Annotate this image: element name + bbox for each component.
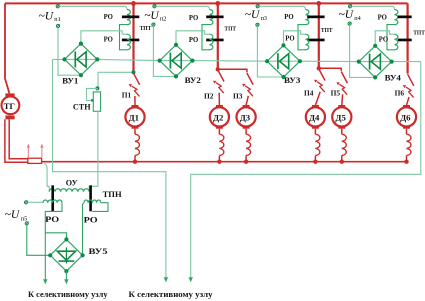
wire: branch down to selective arrow A (44, 233, 46, 280)
wire: DC rail through rectifiers (53, 59, 421, 61)
wire: coil bottoms bracket section 2 (202, 25, 210, 50)
wire: coil bottoms bracket section 1 (120, 25, 128, 50)
inductor: Д1 smoothing coil (134, 129, 136, 135)
node: supply terminal 1 ~Uп3 (256, 5, 259, 8)
svg-text:ВУ2: ВУ2 (185, 76, 201, 85)
node: CTH bracket end (91, 99, 94, 102)
node: supply terminal 2 ~Uп1 (56, 24, 59, 27)
relay coil РО upper section 2 (210, 10, 213, 25)
wire: terminal2 to bridge bottom section 4 (350, 25, 376, 77)
node: bus junction section 3 (316, 1, 321, 6)
wire: TPN right coil to VU5 right corner (83, 203, 85, 256)
svg-text:СТН: СТН (73, 103, 91, 112)
transformer ТПТ core bar upper section 3 (307, 16, 324, 19)
node: tap junction on motor branch 1 (132, 70, 136, 74)
inductor: Д2 smoothing coil (218, 129, 220, 135)
node: supply terminal 2 ~Uп2 (152, 23, 155, 26)
motor Д5 (338, 105, 345, 108)
rectifier ВУ5 (50, 239, 82, 271)
svg-text:ТПТ: ТПТ (224, 25, 236, 32)
node: CTH top junction (95, 86, 99, 90)
svg-text:РО: РО (379, 36, 388, 43)
svg-text:ВУ5: ВУ5 (89, 247, 108, 256)
svg-text:РО: РО (285, 36, 294, 43)
node: supply terminal 1 ~Uп1 (56, 5, 59, 8)
node: supply terminal 2 ~Uп4 (348, 22, 351, 25)
svg-text:ОУ: ОУ (66, 179, 78, 188)
wire: terminal1 to PO coil section 2 (156, 6, 209, 9)
wire: left feeder drop to TG (5, 3, 9, 93)
wire: terminal2 to bridge bottom section 1 (58, 28, 81, 76)
wire: TPN left coil to VU5 top and selective arrow (45, 203, 66, 240)
wire: top supply bus (red) (5, 2, 408, 4)
contactor П1 (134, 73, 140, 85)
wire: terminal2 to bridge bottom section 2 (153, 26, 176, 76)
svg-text:РО: РО (45, 215, 59, 224)
relay coil РО upper section 3 (306, 10, 309, 25)
svg-text:ТГ: ТГ (4, 101, 15, 111)
transformer ТПТ core bar lower section 2 (206, 39, 223, 42)
svg-text:РО: РО (84, 215, 98, 224)
contactor П4 (319, 69, 325, 81)
wire: bottom return bus (red) (42, 161, 408, 163)
svg-text:Д3: Д3 (240, 113, 251, 123)
svg-text:ВУ3: ВУ3 (284, 76, 300, 85)
inductor OU winding (TPN primary) (49, 189, 89, 192)
wire: coil bottoms bracket section 3 (298, 25, 306, 50)
wire: bridge top to PO lower section 2 (176, 31, 210, 45)
node: bus junction section 1 (131, 1, 136, 6)
wire: coil bottoms bracket section 4 (387, 25, 395, 50)
resistor CTH (93, 92, 100, 111)
svg-text:РО: РО (378, 15, 387, 22)
svg-text:~U: ~U (39, 10, 54, 22)
transformer ТПТ core bar lower section 3 (307, 39, 324, 42)
inductor: Д5 smoothing coil (341, 129, 343, 135)
svg-text:К селективному узлу: К селективному узлу (129, 290, 214, 299)
svg-text:п2: п2 (160, 15, 166, 22)
wire: VU5 bottom to selective arrow B (65, 271, 67, 279)
arrow: selective arrow A (43, 279, 47, 284)
wire: branch to П5 (319, 68, 341, 71)
arrow: to selective node 1 (164, 277, 168, 282)
transformer ТПТ core bar upper section 1 (122, 16, 139, 19)
svg-text:РО: РО (104, 36, 113, 43)
svg-text:п3: п3 (261, 15, 267, 22)
svg-text:Д6: Д6 (400, 113, 411, 123)
svg-text:ТПН: ТПН (103, 190, 123, 199)
svg-text:П1: П1 (122, 91, 132, 100)
node: branch split section 2 (216, 67, 220, 71)
wire: CTH to OU winding right end (96, 88, 98, 92)
wire: TG lead inner (9, 119, 28, 158)
transformer ТПТ core bar lower section 1 (122, 39, 139, 42)
contactor П5 (341, 72, 347, 84)
relay coil РО lower section 2 (210, 34, 213, 50)
wire: terminal1 to PO coil section 1 (60, 6, 128, 9)
motor Д3 (243, 105, 250, 108)
svg-text:Д5: Д5 (335, 113, 346, 123)
svg-text:П6: П6 (395, 88, 405, 97)
svg-text:П2: П2 (204, 92, 214, 101)
relay coil РО lower section 3 (306, 34, 309, 50)
svg-text:~U: ~U (144, 10, 159, 22)
rectifier ВУ1 (65, 44, 98, 76)
wire: terminal2 to bridge bottom section 3 (257, 26, 283, 77)
transformer ТПН core bar right (89, 185, 92, 211)
rectifier ВУ2 (160, 45, 193, 77)
svg-text:РО: РО (189, 15, 198, 22)
inductor: Д6 smoothing coil (406, 129, 408, 135)
inductor: Д4 smoothing coil (314, 129, 316, 135)
svg-text:~U: ~U (339, 9, 354, 21)
svg-text:ТПТ: ТПТ (140, 25, 152, 32)
arrow: selective arrow B (64, 279, 68, 284)
contactor П2 (218, 70, 224, 82)
relay coil РО lower section 4 (395, 34, 398, 50)
generator TG (5, 93, 14, 97)
motor Д2 (216, 105, 223, 108)
svg-text:Д1: Д1 (129, 113, 139, 123)
node: supply terminal 2 ~Uп3 (256, 23, 259, 26)
svg-text:Д2: Д2 (213, 113, 224, 123)
wire: TPN right coil bracket (92, 203, 108, 212)
relay coil РО upper section 1 (127, 10, 130, 25)
svg-text:ТПТ: ТПТ (413, 29, 425, 36)
svg-text:ТПТ: ТПТ (321, 27, 333, 34)
node: supply terminal 1 ~Uп4 (348, 5, 351, 8)
relay coil РО lower section 1 (127, 34, 130, 50)
shunt resistor (28, 158, 42, 163)
rectifier ВУ3 (267, 45, 300, 77)
inductor: Д3 smoothing coil (245, 129, 247, 135)
wire: bridge top to PO lower section 4 (375, 31, 394, 46)
arrow: to selective node 2 (189, 277, 193, 282)
wire: red feeder section 1 (132, 3, 134, 72)
wire: TG lead outer (5, 119, 28, 162)
node: supply terminal 1 ~Uп5 (24, 201, 27, 204)
node: bus junction section 2 (215, 1, 220, 6)
wire: red feeder section 2 (217, 3, 219, 69)
wire: shunt tap to OU winding left end (44, 163, 49, 191)
transformer ТПТ core bar upper section 4 (398, 16, 412, 19)
wire: selective node line 1 (from VU1 minus) (53, 59, 166, 277)
transformer ТПТ core bar upper section 2 (206, 16, 223, 19)
svg-text:РО: РО (104, 14, 113, 21)
svg-text:Д4: Д4 (309, 113, 320, 123)
wire: terminal2 to VU5 left corner (27, 225, 50, 255)
wire: CTH bypass bracket (87, 88, 98, 100)
svg-text:РО: РО (189, 37, 198, 44)
svg-text:ВУ4: ВУ4 (385, 74, 401, 83)
rectifier ВУ4 (359, 46, 392, 78)
svg-text:п4: п4 (354, 15, 360, 22)
wire: terminal1 to TPN left coil (28, 201, 43, 203)
svg-text:П4: П4 (304, 89, 314, 98)
wire: tap from motor branch to CTH (98, 72, 134, 88)
wire: red feeder section 4 (407, 3, 409, 73)
svg-text:П3: П3 (233, 92, 243, 101)
wire: terminal1 to PO coil section 3 (259, 6, 305, 9)
wire: red feeder section 3 (318, 3, 320, 68)
svg-text:РО: РО (284, 14, 293, 21)
contactor П6 (408, 74, 414, 86)
transformer ТПН core bar left (51, 185, 54, 211)
node: supply terminal 2 ~Uп5 (25, 222, 28, 225)
contactor П3 (247, 73, 253, 85)
transformer ТПТ core bar lower section 4 (398, 39, 412, 42)
svg-text:п1: п1 (54, 16, 60, 23)
wire: bridge top to PO lower section 3 (284, 31, 306, 46)
svg-text:~U: ~U (5, 209, 20, 221)
svg-text:~U: ~U (245, 9, 260, 21)
wire: branch to П3 (218, 69, 247, 72)
wire: terminal1 to PO coil section 4 (352, 6, 395, 9)
node: supply terminal 1 ~Uп2 (153, 5, 156, 8)
node: branch split section 3 (317, 66, 321, 70)
wire: selective node line 2 (right loop) (191, 62, 421, 278)
motor Д1 (132, 105, 139, 108)
relay coil РО right (TPN secondary) (84, 200, 101, 203)
arrow: shunt tap right (41, 147, 43, 158)
svg-text:К селективному узлу: К селективному узлу (28, 290, 108, 299)
svg-text:П5: П5 (331, 89, 341, 98)
arrow: shunt tap left (27, 147, 29, 158)
relay coil РО left (TPN secondary) (43, 200, 62, 203)
motor Д4 (312, 105, 319, 108)
motor Д6 (403, 105, 410, 108)
svg-text:ВУ1: ВУ1 (62, 77, 78, 86)
wire: bridge top to PO lower section 1 (81, 31, 127, 44)
relay coil РО upper section 4 (395, 10, 398, 25)
